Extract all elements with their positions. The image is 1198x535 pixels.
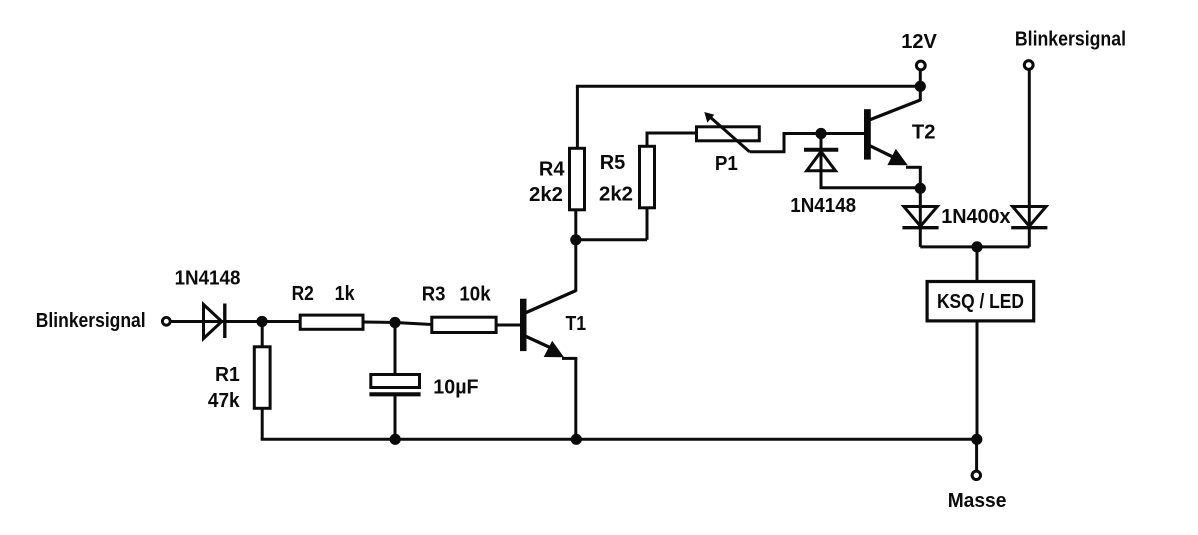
wire node D to T2 base: [821, 132, 865, 135]
svg-text:R2: R2: [292, 282, 314, 304]
node B junction dot: [389, 317, 400, 328]
terminal Masse: [972, 471, 980, 479]
svg-text:12V: 12V: [901, 31, 937, 53]
svg-text:2k2: 2k2: [599, 184, 633, 206]
transistor T1 emitter diagonal with arrow: [524, 336, 577, 359]
svg-text:R4: R4: [539, 159, 565, 181]
node C junction dot: [570, 234, 581, 245]
node A junction dot: [256, 316, 267, 327]
wire R4 bottom to node C: [574, 210, 577, 240]
bottom rail wire: [261, 438, 977, 441]
wire bottom rail to Masse terminal: [975, 439, 978, 470]
transistor T2 emitter diagonal with arrow: [869, 145, 922, 167]
resistor R4 2k2 body: [570, 148, 585, 210]
terminal left Blinkersignal input: [162, 317, 170, 325]
svg-text:R5: R5: [600, 152, 626, 174]
terminal Blinkersignal right: [1024, 61, 1033, 70]
diode D4 1N400x right pointing down: [1011, 207, 1047, 228]
svg-text:Blinkersignal: Blinkersignal: [36, 309, 146, 331]
svg-text:R1: R1: [215, 364, 240, 386]
terminal 12V: [916, 61, 925, 70]
top rail wire 12V: [576, 85, 920, 88]
capacitor C1 10uF top plate: [371, 375, 420, 388]
diode D2 1N4148 pointing up: [804, 150, 838, 171]
resistor R1 47k vertical body: [254, 347, 270, 409]
svg-text:KSQ / LED: KSQ / LED: [937, 290, 1024, 312]
resistor R2 1k body: [300, 315, 363, 329]
wire node D down to D2: [820, 134, 823, 189]
node D junction dot: [815, 128, 826, 139]
svg-text:T2: T2: [912, 122, 936, 144]
svg-text:T1: T1: [566, 312, 587, 334]
wire T2 emitter down to node E: [919, 167, 922, 188]
svg-text:R3: R3: [422, 284, 446, 306]
svg-text:1k: 1k: [335, 283, 355, 305]
transistor T2 base bar: [864, 109, 871, 159]
wire T1 collector up to node C: [574, 240, 577, 292]
capacitor C1 bottom plate: [369, 392, 420, 396]
svg-text:10k: 10k: [459, 283, 490, 306]
wire KSQ box down to bottom rail: [976, 321, 979, 439]
wire D2 down and across to node E: [821, 171, 920, 188]
junction dot node F top rail: [915, 81, 926, 92]
node G junction dot: [971, 241, 982, 252]
transistor T2 collector diagonal: [868, 100, 920, 121]
wire node A down to R1: [261, 322, 264, 348]
wire R2 to R3 through node B: [363, 322, 432, 325]
potentiometer P1 body: [697, 127, 760, 141]
wire node E through D3 to rail: [919, 188, 922, 247]
wire R4 top to top rail: [576, 86, 579, 148]
wire R3 to T1 base: [496, 324, 520, 327]
wire node C to R5 bottom: [576, 238, 647, 241]
wire node B down to capacitor C1: [394, 323, 397, 375]
wire T1 emitter down to bottom rail: [574, 358, 577, 439]
junction dot bottom under T1: [571, 434, 582, 445]
wire input terminal to diode D1: [172, 320, 263, 323]
wire P1 wiper staircase to node D: [750, 134, 822, 152]
wire across under diodes: [920, 245, 1029, 248]
svg-text:2k2: 2k2: [529, 184, 563, 206]
wire right terminal through D4 to rail: [1028, 71, 1031, 247]
potentiometer P1 arrow: [704, 112, 749, 152]
junction dot bottom under C1: [390, 434, 401, 445]
wire node G down to KSQ box: [976, 247, 979, 282]
wire T2 collector up to 12V terminal: [919, 71, 922, 101]
wire D1 to R2 through node A: [226, 320, 301, 323]
wire R5 top lead and across to P1: [647, 133, 697, 146]
wire R1 to bottom rail: [261, 408, 264, 439]
junction dot bottom right: [971, 434, 982, 445]
diode D1 1N4148: [204, 304, 225, 339]
svg-text:Masse: Masse: [948, 490, 1007, 512]
svg-text:Blinkersignal: Blinkersignal: [1015, 29, 1126, 51]
svg-text:P1: P1: [715, 152, 738, 175]
diode D3 1N400x left pointing down: [902, 207, 938, 228]
svg-text:10µF: 10µF: [433, 376, 478, 398]
KSQ / LED box: [927, 282, 1034, 321]
svg-text:1N4148: 1N4148: [790, 194, 856, 217]
svg-text:47k: 47k: [208, 390, 240, 413]
transistor T1 base bar: [520, 299, 527, 351]
resistor R3 10k body: [432, 317, 496, 332]
wire C1 to bottom rail: [394, 396, 397, 439]
resistor R5 2k2 body: [640, 146, 655, 208]
wire R5 bottom lead: [646, 208, 649, 240]
svg-text:1N400x: 1N400x: [941, 206, 1010, 228]
svg-text:1N4148: 1N4148: [175, 267, 241, 290]
transistor T1 collector diagonal: [524, 291, 576, 314]
node E junction dot: [915, 183, 926, 194]
